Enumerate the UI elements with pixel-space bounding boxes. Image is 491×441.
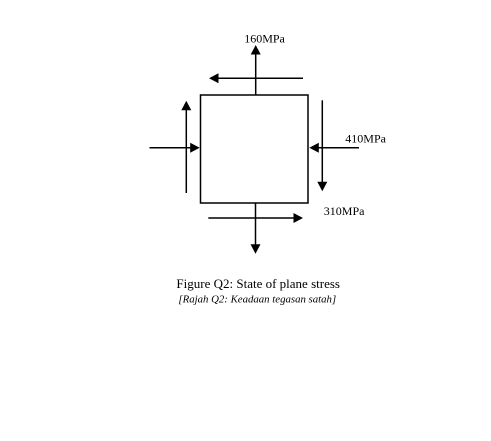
arrow right normal stress (left, into square) [309,143,359,153]
svg-text:310MPa: 310MPa [324,204,365,218]
svg-text:160MPa: 160MPa [244,32,285,46]
arrow right shear (down) [317,100,327,191]
arrow top shear (left) [209,73,303,83]
svg-text:Figure Q2: State of plane stre: Figure Q2: State of plane stress [176,276,340,291]
stress element square [201,95,309,203]
arrow bottom normal stress (down) [251,203,261,254]
arrow left normal stress (right, into square) [150,143,200,153]
svg-text:410MPa: 410MPa [345,131,386,145]
arrow left shear (up) [181,101,191,193]
arrow bottom shear (right) [208,213,303,223]
svg-text:[Rajah Q2: Keadaan tegasan sat: [Rajah Q2: Keadaan tegasan satah] [178,294,336,306]
arrow top normal stress (up) [251,45,261,95]
